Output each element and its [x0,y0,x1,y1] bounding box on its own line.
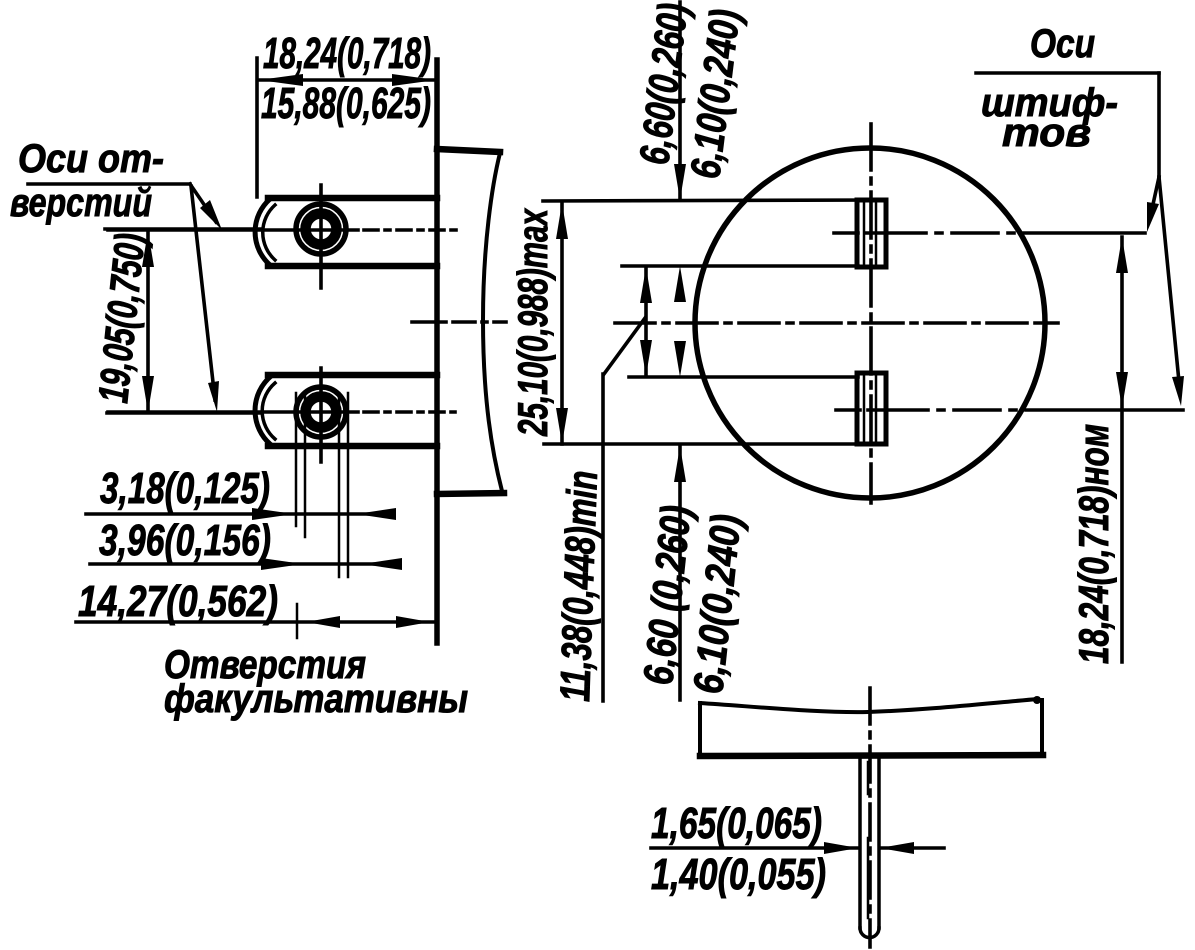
leader arrow at bottom hole axis [208,381,219,412]
svg-text:11,38(0,448)min: 11,38(0,448)min [551,470,606,702]
left view: bottom lobe top edge [268,372,437,379]
left view: bottom hole horizontal centerline solid part [108,410,358,414]
svg-text:1,65(0,065): 1,65(0,065) [651,799,822,848]
right view: top pin well rectangle [857,200,886,267]
svg-text:верстий: верстий [10,181,152,225]
dimension 3,18 right arrow [356,508,396,520]
leader to bottom hole axis [191,186,215,400]
leader to top pin axis [1150,177,1159,218]
dimension 19,05(0,750) top extension [105,227,260,231]
svg-text:18,24(0,718): 18,24(0,718) [263,29,431,78]
right view: bottom pin centerline [836,408,1193,412]
left view: extension stub below 14,27 line [296,604,299,638]
left view: top lobe left inner arc [263,205,275,260]
left view: top lobe bottom edge [268,263,437,270]
left view: bottom hole vertical centerline [319,368,323,462]
svg-text:14,27(0,562): 14,27(0,562) [78,577,278,626]
dimension 11,38 up arrow [640,267,652,303]
svg-text:тов: тов [1002,111,1091,155]
dimension 19,05(0,750) line [146,231,150,412]
dimension 19,05 top arrow [142,231,154,267]
dimension 6,60 top up arrow below [674,266,686,302]
left view: top hole inner circle [306,214,337,245]
dimension 11,38 leader diagonal [604,318,645,374]
bottom view: pin right edge [877,757,881,928]
svg-text:Оси: Оси [1030,22,1095,66]
left view: bottom hole outer circle [296,387,346,437]
dimension 18,24 nom line [1120,237,1124,662]
left view: bottom lobe bottom edge [268,443,437,450]
dimension 6,60/6,10 top line from above [678,2,682,199]
dimension 11,38 leader vertical [601,374,605,701]
dimension 25,10(0,988)max line [560,203,564,444]
svg-text:Оси от-: Оси от- [18,137,164,181]
left view: flange main right edge [434,60,440,643]
svg-text:25,10(0,988)max: 25,10(0,988)max [509,208,556,437]
right view: vertical centerline [869,124,873,503]
dimension 6,60/6,10 bottom line downward [678,446,682,700]
right view: can outline circle [695,148,1045,498]
bottom view: vertical centerline [868,688,872,947]
right view: bottom pin well rectangle [857,373,886,444]
left view: hole edge extension line a [295,393,298,526]
right view: horizontal central axis [615,321,1058,325]
bottom view: flange top edge [700,699,1038,712]
leader arrow at top hole axis [200,200,222,230]
leader to top hole axis [190,184,216,222]
leader to bottom pin axis [1159,177,1180,392]
dimension 18,24 right arrow [392,74,436,86]
dimension 3,18 left arrow [252,508,294,520]
right view: top pin centerline [834,231,1145,235]
right view: top pin line b [875,203,878,264]
left view: bottom lobe left inner arc [262,383,275,439]
svg-text:1,40(0,055): 1,40(0,055) [651,850,826,899]
dimension 18,24 nom down arrow [1116,372,1128,408]
dimension 14,27 line [76,620,436,624]
dimension 6,60 top down arrow [674,164,686,200]
dimension 11,38 line between wells [644,267,648,376]
left view: hole edge extension line c [338,393,341,577]
dimension 19,05 bottom arrow [142,376,154,412]
left view: bottom hole centerline dash-dot part [364,410,455,414]
bottom view: flange bottom edge [700,755,1043,756]
dimension 18,24(0,718)/15,88(0,625) line [258,78,437,82]
dimension 18,24 left extension line [255,58,259,197]
dimension 1,65 right line [881,846,944,850]
dimension 18,24 left arrow [259,74,303,86]
left view: hole edge extension line b [304,393,307,537]
left view: top lobe top edge [268,195,437,202]
right view: top pin line a [863,203,866,264]
label axes of holes shelf line [28,182,190,186]
label axes of pins shelf line [976,71,1159,75]
svg-text:факультативны: факультативны [164,677,468,721]
svg-text:15,88(0,625): 15,88(0,625) [261,79,431,128]
dimension 14,27 left arrow [306,616,340,628]
svg-text:3,18(0,125): 3,18(0,125) [100,464,270,513]
left view: top hole centerline dash-dot part [364,228,460,232]
left view: can bottom edge [437,493,504,494]
dimension 18,24 nom up arrow [1116,237,1128,273]
right view: bottom pin line a [863,376,866,441]
leader arrow at top pin axis [1147,202,1159,232]
bottom view: flange corner dot [1033,696,1041,704]
dimension 3,96 left arrow [261,558,303,570]
bottom view: flange left edge [698,703,702,757]
dimension 1,65 left line [651,846,857,850]
left view: can right break edge [483,153,502,491]
bottom view: pin left edge [858,757,862,928]
left view: top hole horizontal centerline solid part [108,228,358,232]
dimension 1,65 left arrow [824,842,858,854]
svg-text:3,96(0,156): 3,96(0,156) [99,516,271,565]
dimension 25,10 bottom arrow [556,408,568,444]
left view: hole edge extension line d [347,393,350,577]
left view: top hole outer circle [296,204,346,254]
dimension 3,18 line [86,512,394,516]
dimension 6,60/6,10 bottom down arrow [674,341,686,377]
left view: top hole vertical centerline [319,185,323,288]
dimension 6,60/6,10 bottom up arrow [674,446,686,482]
dimension 3,96 line [90,562,394,566]
middle: top well lower edge extension [622,264,858,268]
dimension 3,96 right arrow [362,558,402,570]
middle: bottom well upper edge extension [629,375,858,379]
right view: bottom pin line b [875,376,878,441]
dimension 25,10 top arrow [556,203,568,239]
bottom view: flange right edge [1040,700,1044,755]
leader vertical from shelf [1157,73,1161,177]
leader arrow at bottom pin axis [1172,376,1184,406]
dimension 1,65 right arrow [880,842,914,854]
bottom view: pin inner highlight line [867,762,870,918]
svg-text:18,24(0,718)ном: 18,24(0,718)ном [1070,424,1117,664]
dimension 19,05(0,750) bottom extension [107,411,260,415]
left view: can top edge [437,149,500,152]
left view: central axis dash-dot [412,320,506,324]
dimension 11,38 down arrow [640,340,652,376]
middle: top well upper edge extension [543,200,883,201]
middle: bottom well lower edge extension [544,442,858,446]
dimension 14,27 right arrow [396,616,430,628]
left view: bottom hole inner circle [306,397,337,428]
left view: top lobe left outer arc [255,199,270,265]
left view: bottom lobe left outer arc [255,377,270,444]
bottom view: pin bottom cap [860,928,879,938]
